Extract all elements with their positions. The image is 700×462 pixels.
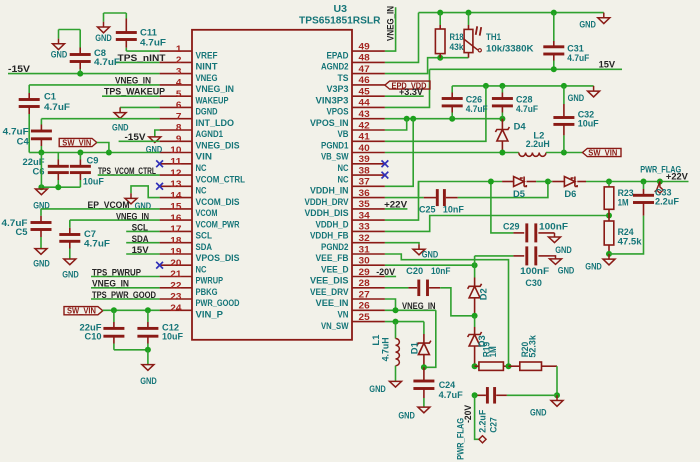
junction PWR_FLAG (657, 179, 663, 185)
svg-text:SW_VIN: SW_VIN (588, 148, 617, 158)
ground GND below C27 right (530, 395, 563, 417)
svg-text:SCL: SCL (132, 222, 149, 232)
svg-text:VNEG_IN: VNEG_IN (386, 6, 396, 41)
wire pin40 VB_SW SW_VIN row (385, 152, 519, 154)
pin 29 VEE_DIS (310, 267, 385, 286)
svg-text:35: 35 (359, 199, 371, 210)
diode D6 schottky (548, 177, 586, 199)
wire pin1 VREF to C11 (126, 50, 159, 52)
no-connect pin13 (156, 183, 163, 190)
pin 15 VCOM (160, 202, 218, 219)
svg-text:GND: GND (422, 249, 439, 259)
wire pin23 PWR_GOOD (91, 298, 160, 300)
svg-text:4.7uF: 4.7uF (94, 57, 121, 67)
svg-text:31: 31 (359, 244, 371, 255)
svg-text:13: 13 (170, 179, 181, 190)
svg-text:4.7uF: 4.7uF (567, 53, 589, 63)
svg-text:4.7uF: 4.7uF (439, 390, 464, 400)
wire pin19 VPOS_DIS 15V (126, 253, 159, 255)
svg-text:10nF: 10nF (431, 266, 451, 276)
pin 1 VREF (160, 44, 218, 61)
svg-text:VCOM_PWR: VCOM_PWR (196, 219, 240, 229)
svg-text:NC: NC (196, 163, 207, 173)
svg-text:15V: 15V (132, 245, 149, 255)
wire pin34 VDDH_D (385, 182, 419, 221)
svg-text:25: 25 (359, 312, 371, 323)
capacitor C25 10nF (419, 189, 464, 214)
junction TH1 top (466, 10, 472, 16)
svg-text:10uF: 10uF (162, 332, 183, 342)
global label SW_VIN left (59, 137, 97, 147)
pin 11 NC (160, 157, 207, 174)
pin 25 VN_SW (321, 312, 385, 331)
capacitor C26 4.7uF (442, 86, 488, 119)
svg-text:R24: R24 (618, 227, 634, 237)
svg-text:GND: GND (555, 245, 572, 255)
svg-text:42: 42 (359, 120, 370, 131)
junction C27 right gnd (554, 392, 560, 398)
pin 9 VNEG_DIS (160, 134, 240, 151)
svg-text:EPAD: EPAD (327, 50, 349, 60)
capacitor C33 2.2uF (633, 182, 680, 216)
wire pin49 EPAD up (385, 7, 396, 51)
svg-text:4.7uF: 4.7uF (3, 126, 30, 136)
wire C30 left from -20V chain (475, 255, 514, 257)
svg-text:VIN: VIN (196, 152, 213, 162)
svg-text:PWR_GOOD: PWR_GOOD (196, 298, 240, 308)
svg-text:43: 43 (359, 109, 370, 120)
svg-text:TPS_nINT: TPS_nINT (118, 53, 167, 63)
junction C4 bottom (38, 150, 44, 156)
svg-text:VEE_FB: VEE_FB (316, 253, 349, 263)
svg-text:16: 16 (170, 213, 181, 224)
svg-text:38: 38 (359, 165, 370, 176)
no-connect pin39 (382, 160, 389, 167)
svg-text:GND: GND (62, 269, 79, 279)
thermistor TH1 10k/3380K (463, 13, 534, 58)
pin 24 VIN_P (160, 303, 223, 320)
svg-text:VEE_DIS: VEE_DIS (310, 276, 349, 286)
svg-text:20: 20 (170, 258, 181, 269)
svg-text:GND: GND (585, 262, 602, 272)
capacitor C32 10uF (553, 86, 599, 153)
capacitor C20 10nF (406, 266, 451, 296)
wire pin28 VEE_DRV to C20 (385, 287, 409, 289)
svg-text:C9: C9 (87, 155, 99, 165)
ground GND right of C28 (568, 86, 600, 103)
svg-text:4.7uF: 4.7uF (466, 104, 488, 114)
svg-text:19: 19 (170, 247, 181, 258)
wire pin17 SCL (126, 230, 159, 232)
wire VNEG_IN down to D1 C24 (424, 310, 436, 367)
ground GND below C12 (140, 365, 157, 386)
svg-text:DGND: DGND (196, 107, 218, 117)
wire GND rail over caps (452, 85, 593, 87)
svg-text:6: 6 (176, 100, 182, 111)
pin 13 NC (160, 179, 207, 196)
svg-text:C27: C27 (489, 417, 499, 433)
wire pin26 VN VNEG_IN net (385, 309, 436, 311)
pin 22 PBKG (160, 281, 218, 298)
svg-text:AGND2: AGND2 (321, 62, 349, 72)
svg-text:15V: 15V (599, 59, 616, 69)
svg-text:VDDH_FB: VDDH_FB (310, 231, 349, 241)
wire pin45 VIN3P3 (385, 95, 424, 97)
pin 40 VB_SW (321, 143, 385, 162)
svg-text:12: 12 (170, 168, 181, 179)
pin 5 WAKEUP (160, 89, 229, 106)
pin 27 VEE_IN (316, 289, 385, 308)
svg-text:52.3k: 52.3k (527, 334, 537, 357)
svg-text:C24: C24 (439, 380, 456, 390)
svg-text:34: 34 (359, 210, 371, 221)
junction R18 bottom (437, 55, 443, 61)
global label SW_VIN right (583, 148, 622, 158)
global label SW_VIN at pin24 (64, 306, 103, 316)
svg-text:47: 47 (359, 64, 370, 75)
diode D1 zener (410, 322, 431, 368)
pin 23 PWR_GOOD (160, 292, 240, 309)
capacitor C12 10uF (137, 310, 183, 350)
svg-text:PGND2: PGND2 (321, 242, 349, 252)
svg-text:VNEG_DIS: VNEG_DIS (196, 141, 240, 151)
pin 42 VB (338, 120, 385, 139)
wire down to ground (147, 350, 149, 365)
svg-text:SCL: SCL (196, 231, 213, 241)
svg-text:D5: D5 (513, 189, 525, 199)
svg-text:TPS_WAKEUP: TPS_WAKEUP (104, 87, 165, 97)
wire C25 right to pump node (458, 182, 548, 198)
svg-text:44: 44 (359, 98, 371, 109)
svg-text:10nF: 10nF (443, 204, 464, 214)
svg-text:EP_VCOM: EP_VCOM (88, 200, 130, 210)
svg-text:NC: NC (338, 174, 349, 184)
wire pin15 VCOM EP_VCOM (41, 208, 160, 210)
wire pin2 NINT (115, 61, 160, 63)
wire PGND2 vertical from D5 junction (491, 182, 514, 233)
svg-text:TPS_PWR_GOOD: TPS_PWR_GOOD (92, 290, 156, 300)
svg-text:-15V: -15V (8, 64, 30, 74)
svg-text:23: 23 (170, 292, 181, 303)
svg-text:VB: VB (338, 129, 349, 139)
wire C33 bottom to R24 bottom (609, 216, 644, 254)
wire pin7 INT_LDO (41, 118, 159, 120)
svg-text:10uF: 10uF (578, 119, 599, 129)
ground GND right of C29 (549, 233, 573, 255)
svg-text:24: 24 (170, 303, 182, 314)
wire VB vertical to pin37 (385, 119, 413, 187)
svg-text:VPOS: VPOS (327, 107, 349, 117)
junction D1 anode C24 top (421, 364, 427, 370)
svg-text:43k: 43k (450, 42, 465, 52)
svg-text:27: 27 (359, 289, 370, 300)
svg-text:VNEG_IN: VNEG_IN (115, 75, 151, 85)
svg-text:32: 32 (359, 233, 370, 244)
svg-text:4.7uF: 4.7uF (140, 37, 167, 47)
svg-text:VNEG: VNEG (196, 73, 218, 83)
svg-text:1: 1 (176, 44, 182, 55)
pin 34 VDDH_D (316, 210, 385, 229)
svg-text:U3: U3 (334, 4, 348, 15)
junction C32 top (561, 83, 567, 89)
svg-text:21: 21 (170, 269, 182, 280)
svg-text:4: 4 (176, 78, 182, 89)
pin 26 VN (338, 301, 385, 320)
capacitor C24 4.7uF (413, 367, 463, 407)
svg-text:V3P3: V3P3 (327, 84, 349, 94)
svg-text:8: 8 (176, 123, 182, 134)
svg-text:+22V: +22V (384, 199, 407, 209)
svg-text:1M: 1M (618, 198, 629, 208)
wire R20 right down to C27 gnd (556, 366, 558, 395)
svg-text:VNEG_IN: VNEG_IN (92, 279, 129, 289)
svg-text:VCOM: VCOM (196, 208, 218, 218)
wire pin44 VPOS to 15V (385, 69, 430, 107)
capacitor C4 4.7uF (3, 119, 52, 153)
pin 44 VPOS (327, 98, 385, 117)
svg-text:VB_SW: VB_SW (321, 152, 349, 162)
ground GND at pin6 (112, 107, 129, 132)
svg-text:26: 26 (359, 301, 370, 312)
svg-text:VEE_DRV: VEE_DRV (310, 287, 349, 297)
junction R23 top (606, 179, 612, 185)
svg-text:48: 48 (359, 53, 370, 64)
resistor R23 1M (604, 182, 633, 216)
svg-text:C5: C5 (16, 227, 28, 237)
pin 33 VDDH_FB (310, 222, 385, 241)
svg-text:C31: C31 (567, 43, 584, 53)
junction PGND1 vertical (483, 83, 489, 89)
svg-text:2: 2 (176, 55, 182, 66)
wire VDDH_FB feedback (385, 216, 609, 232)
wire SW_VIN to VIN row (97, 143, 109, 153)
svg-text:GND: GND (579, 19, 596, 29)
ground GND below C7 (62, 259, 79, 279)
wire 15V rail (430, 68, 623, 70)
junction pump node (545, 179, 551, 185)
op-amp U3 TPS651851RSLR chip body (192, 30, 352, 340)
junction at C8 bottom (77, 71, 83, 77)
svg-text:11: 11 (170, 157, 182, 168)
capacitor C10 22uF (80, 310, 125, 350)
inductor L2 2.2uH (519, 130, 550, 156)
ground GND at pin14 (125, 193, 152, 211)
wire pin27 VEE_IN hook (385, 299, 396, 310)
svg-text:SW_VIN: SW_VIN (62, 137, 91, 147)
junction C12 bottom (145, 347, 151, 353)
capacitor C31 4.7uF (543, 13, 589, 70)
svg-text:33: 33 (359, 222, 370, 233)
svg-text:PWRUP: PWRUP (196, 276, 224, 286)
pin 6 DGND (160, 100, 218, 117)
svg-text:C1: C1 (44, 91, 56, 101)
wire pin14 VCOM_DIS hook (131, 186, 160, 198)
pin 7 INT_LDO (160, 111, 234, 128)
svg-text:1M: 1M (488, 346, 498, 357)
svg-text:SDA: SDA (132, 234, 149, 244)
pin 38 NC (338, 165, 385, 184)
svg-text:4.7uF: 4.7uF (84, 238, 111, 248)
junction R19 R20 feedback (506, 363, 512, 369)
svg-text:4.7uH: 4.7uH (380, 337, 390, 361)
wire pin47 TS to divider (385, 58, 469, 74)
svg-text:37: 37 (359, 177, 370, 188)
capacitor C11 4.7uF (104, 13, 167, 51)
junction at D5 wire (488, 179, 494, 185)
svg-text:15: 15 (170, 202, 182, 213)
junction C28 top (499, 83, 505, 89)
power flag PWR_FLAG bottom (456, 418, 487, 460)
svg-text:D2: D2 (478, 288, 488, 300)
junction pin27 join (393, 307, 399, 313)
svg-text:+3.3V: +3.3V (399, 87, 423, 97)
wire pin43 VPOS_IN VB rail (385, 118, 503, 120)
pin 2 NINT (160, 55, 218, 72)
wire C10 C12 bottoms (114, 349, 148, 351)
svg-text:VEE_IN: VEE_IN (316, 298, 349, 308)
svg-text:45: 45 (359, 87, 371, 98)
svg-text:100nF: 100nF (520, 266, 550, 276)
junction R18 top (437, 10, 443, 16)
capacitor C5 4.7uF (2, 209, 52, 249)
svg-text:VNEG_IN: VNEG_IN (402, 301, 436, 311)
wire pin35 VDDH_DIS (385, 208, 408, 210)
junction R19 left (472, 363, 478, 369)
svg-text:VDDH_D: VDDH_D (316, 219, 349, 229)
wire pin5 WAKEUP (102, 95, 160, 97)
svg-text:SW_VIN: SW_VIN (67, 306, 96, 316)
pin 14 VCOM_DIS (160, 190, 240, 207)
svg-text:49: 49 (359, 41, 370, 52)
wire pin25 VN_SW (385, 321, 424, 323)
svg-text:22: 22 (170, 281, 181, 292)
pin 49 EPAD (327, 41, 385, 60)
ground GND at C11 (95, 22, 112, 43)
svg-text:VPOS_DIS: VPOS_DIS (196, 253, 240, 263)
pin 20 NC (160, 258, 207, 275)
wire top GND rail (419, 12, 604, 14)
junction D2 anode C20 (472, 313, 478, 319)
capacitor C27 2.2uF (475, 387, 557, 433)
svg-text:46: 46 (359, 75, 370, 86)
svg-text:GND: GND (33, 259, 50, 269)
svg-text:VEE_D: VEE_D (321, 264, 349, 274)
pin 46 V3P3 (327, 75, 385, 94)
ground GND at pin32 (413, 244, 439, 259)
ground GND right of C30 (550, 256, 575, 276)
diode D2 zener (468, 265, 489, 316)
pin 47 TS (338, 64, 385, 83)
pin 45 VIN3P3 (316, 87, 385, 106)
wire pin6 DGND (120, 106, 160, 108)
junction C12 top (145, 307, 151, 313)
wire C20 right to D2 node (440, 288, 474, 316)
svg-text:2.2uF: 2.2uF (477, 409, 487, 432)
pin 10 VIN (160, 145, 212, 162)
pin 37 VDDH_IN (310, 177, 385, 196)
svg-text:30: 30 (359, 256, 370, 267)
svg-text:VN: VN (338, 310, 349, 320)
svg-text:GND: GND (369, 384, 386, 394)
svg-text:PWR_FLAG: PWR_FLAG (640, 165, 681, 175)
svg-text:PGND1: PGND1 (321, 141, 349, 151)
svg-text:GND: GND (398, 410, 415, 420)
svg-text:39: 39 (359, 154, 370, 165)
wire pin24 VIN_P (103, 309, 160, 311)
svg-text:10: 10 (170, 145, 181, 156)
resistor R19 1M (475, 342, 509, 371)
svg-text:VNEG_IN: VNEG_IN (116, 211, 149, 221)
pin 31 VEE_FB (316, 244, 385, 263)
svg-text:2.2uF: 2.2uF (655, 196, 680, 206)
junction VB hook pin42 (404, 116, 410, 122)
svg-text:VCOM_CTRL: VCOM_CTRL (196, 174, 246, 184)
svg-text:VN_SW: VN_SW (321, 321, 349, 331)
junction C33 top (641, 179, 647, 185)
svg-text:R18: R18 (450, 32, 464, 42)
svg-text:C6: C6 (33, 166, 45, 176)
pin 41 PGND1 (321, 132, 385, 151)
ground GND below R24 (585, 254, 615, 272)
svg-text:5: 5 (176, 89, 182, 100)
pin 43 VPOS_IN (310, 109, 385, 128)
pin 30 VEE_D (321, 256, 385, 275)
junction C31 top (551, 10, 557, 16)
wire pin10 VIN row SW_VIN net (41, 152, 159, 154)
pin 4 VNEG_IN (160, 78, 234, 95)
svg-text:R23: R23 (618, 188, 634, 198)
svg-text:VIN_P: VIN_P (196, 310, 224, 320)
wire L2 to SW_VIN label (546, 152, 583, 154)
junction D4 anode (499, 150, 505, 156)
svg-text:C11: C11 (140, 27, 157, 37)
ground GND below L1 (369, 381, 401, 394)
svg-text:C25: C25 (419, 204, 436, 214)
svg-text:10k/3380K: 10k/3380K (486, 44, 534, 54)
svg-text:PBKG: PBKG (196, 287, 218, 297)
capacitor C7 4.7uF (59, 220, 110, 259)
capacitor C6 22uF (23, 153, 69, 188)
svg-text:VCOM_DIS: VCOM_DIS (196, 197, 240, 207)
svg-text:VDDH_IN: VDDH_IN (310, 186, 349, 196)
wire C1 bottom down to VIN row (28, 114, 30, 153)
pin 48 AGND2 (321, 53, 385, 72)
svg-text:4.7uF: 4.7uF (516, 104, 538, 114)
svg-text:AGND1: AGND1 (196, 129, 224, 139)
junction R23 R24 divider (606, 213, 612, 219)
svg-text:VPOS_IN: VPOS_IN (310, 118, 349, 128)
wire pin12 VCOM_CTRL (98, 174, 160, 176)
svg-text:C30: C30 (525, 278, 542, 288)
svg-text:29: 29 (359, 267, 370, 278)
wire -20V rail down (474, 264, 476, 266)
svg-text:GND: GND (95, 33, 112, 43)
svg-text:TH1: TH1 (486, 32, 501, 42)
wire pin8 AGND1 hook (155, 130, 160, 137)
ground GND at pin8 (146, 137, 163, 154)
svg-text:TPS_VCOM_CTRL: TPS_VCOM_CTRL (98, 166, 156, 176)
junction C31 bottom (551, 66, 557, 72)
svg-text:INT_LDO: INT_LDO (196, 118, 235, 128)
svg-text:-15V: -15V (125, 132, 146, 142)
pin 3 VNEG (160, 66, 218, 83)
wire -20V down to flag (475, 395, 479, 439)
svg-text:NINT: NINT (196, 62, 219, 72)
svg-text:VDDH_DIS: VDDH_DIS (305, 208, 349, 218)
svg-text:18: 18 (170, 235, 181, 246)
pin 39 NC (338, 154, 385, 173)
svg-text:PWR_FLAG: PWR_FLAG (456, 418, 466, 460)
